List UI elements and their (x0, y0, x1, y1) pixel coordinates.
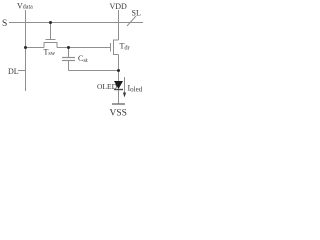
diode OLED cathode bar (114, 89, 123, 91)
diode OLED anode triangle (114, 81, 123, 89)
transistor Tsw gate bar (46, 39, 56, 41)
transistor Tdr (driving TFT) (111, 40, 119, 55)
current arrow Ioled head (123, 93, 126, 98)
wire: Cst bottom to OLED node (69, 70, 119, 72)
node: DL / Tsw source junction (24, 46, 27, 49)
transistor Tdr channel bracket (114, 40, 119, 55)
node: Cst top junction (67, 46, 70, 49)
node: Tsw gate tap on S line (49, 21, 52, 24)
transistor Tdr gate bar (110, 43, 112, 52)
svg-text:OLED: OLED (97, 82, 118, 91)
wire: data line DL vertical (25, 10, 27, 91)
wire: Tsw drain to Tdr gate (57, 47, 110, 49)
wire: OLED cathode down to VSS (118, 90, 120, 104)
svg-text:VDD: VDD (110, 2, 128, 11)
svg-text:DL: DL (8, 67, 19, 76)
capacitor Cst plates (62, 58, 75, 61)
wire: Tsw gate drop from S line (50, 23, 52, 40)
wire: scan line S horizontal (9, 22, 143, 24)
current arrow Ioled line (124, 77, 126, 94)
label leader: DL dash (18, 70, 25, 72)
wire: Cst top drop (68, 48, 70, 58)
svg-text:Ioled: Ioled (128, 84, 143, 94)
svg-text:S: S (2, 19, 7, 29)
svg-text:SL: SL (132, 9, 141, 18)
transistor Tsw (switching TFT) (44, 40, 57, 48)
label leader: SL slash on scan line (127, 16, 136, 26)
capacitor Cst bottom plate (62, 60, 75, 62)
wire: Tdr drain down to OLED anode (118, 55, 120, 82)
wire: Cst bottom drop (68, 61, 70, 71)
capacitor Cst top plate (62, 57, 75, 59)
current arrow Ioled (123, 77, 126, 98)
node: OLED anode junction (117, 69, 120, 72)
wire: VDD supply vertical (118, 10, 120, 40)
transistor Tsw channel bracket (44, 43, 57, 48)
wire: DL to Tsw source (node row) (26, 47, 45, 49)
svg-text:VSS: VSS (110, 109, 127, 119)
ground VSS bar (112, 103, 125, 105)
diode OLED symbol (114, 81, 123, 90)
